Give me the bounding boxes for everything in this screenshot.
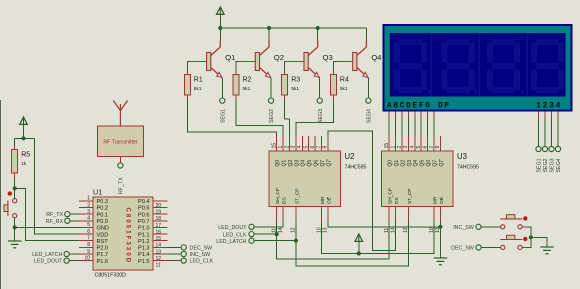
shift register U3 74HC595 body — [382, 151, 454, 207]
svg-text:P0.4: P0.4 — [138, 199, 150, 205]
pin U2.15 Q0 (top) — [276, 136, 278, 151]
junction OE net — [438, 225, 442, 229]
svg-text:ST_CP: ST_CP — [407, 189, 413, 204]
pin U3.5 Q5 (top) — [420, 136, 422, 151]
wire Q1 emitter down — [221, 78, 223, 98]
svg-text:9: 9 — [435, 146, 441, 149]
junction rail Q3 — [316, 26, 320, 30]
pin U1.13 P1.3 — [153, 246, 168, 248]
svg-text:P0.7: P0.7 — [138, 219, 150, 225]
pin display segment DP — [433, 112, 435, 119]
pin U1.9 P1.7 — [79, 253, 93, 255]
wire junction to switch top — [14, 190, 16, 198]
wire R4 to U2 input Q3 — [296, 101, 334, 137]
terminal LED_DOUT (to U2 DS) — [249, 224, 254, 229]
ground (reset switch) — [8, 241, 22, 248]
svg-text:D: D — [406, 101, 411, 110]
junction switch/GND — [13, 225, 17, 229]
wire power lead — [23, 124, 25, 138]
pin U1.15 P1.1 — [153, 233, 168, 235]
wire Q2 emitter down — [270, 78, 272, 98]
svg-text:SEG4: SEG4 — [556, 158, 562, 172]
wire display digit 2 down — [544, 118, 546, 147]
pin U1.14 P1.2 — [153, 240, 168, 242]
power symbol VCC (transistor rail) — [217, 7, 225, 14]
svg-text:P0.0: P0.0 — [97, 219, 109, 225]
pin R3.1 lead — [284, 70, 286, 75]
pin U3.4 Q4 (top) — [414, 136, 416, 151]
power symbol VCC (reset pullup) — [20, 117, 28, 124]
push button INC_SW — [500, 215, 527, 229]
wire to R5 top — [14, 138, 16, 144]
pin display digit 3 — [551, 112, 553, 119]
svg-text:D: D — [438, 101, 443, 110]
pin R1.2 lead — [186, 95, 188, 101]
wire U2 OE to U3 OE — [328, 221, 441, 227]
pin U3.12 ST_CP (bottom) — [407, 207, 409, 222]
svg-text:P1.1: P1.1 — [138, 232, 150, 238]
pin U1.17 P0.7 — [153, 220, 168, 222]
wire LED_LATCH to ST_CP net — [254, 240, 296, 242]
terminal DEC_SW (right of U1) — [181, 245, 186, 250]
resistor R3 5k1 — [282, 75, 301, 96]
svg-text:C8051F330D: C8051F330D — [125, 208, 131, 265]
pin display segment A — [388, 112, 390, 119]
svg-text:VDD: VDD — [97, 232, 109, 238]
pin U2.4 Q4 (top) — [301, 136, 303, 151]
transistor Q2 NPN — [239, 41, 271, 79]
svg-text:7: 7 — [429, 146, 435, 149]
resistor R2 5k1 — [233, 75, 252, 96]
svg-text:LED_DOUT: LED_DOUT — [218, 225, 247, 231]
pin U2.11 SH_CP (bottom) — [276, 207, 278, 222]
svg-text:R2: R2 — [243, 77, 252, 84]
svg-text:3: 3 — [549, 101, 554, 110]
svg-text:MR: MR — [432, 196, 438, 204]
svg-text:7: 7 — [316, 146, 322, 149]
pin R4.1 lead — [332, 70, 334, 75]
svg-text:Q1: Q1 — [394, 160, 400, 167]
pin U1.6 VDD — [79, 233, 93, 235]
svg-text:7: 7 — [87, 236, 90, 242]
wire RST net to U1 pin 7 — [15, 188, 79, 240]
svg-text:LED_DOUT: LED_DOUT — [34, 259, 63, 265]
pin U2.6 Q6 (top) — [314, 136, 316, 151]
pin U3.6 Q6 (top) — [427, 136, 429, 151]
svg-text:Q3: Q3 — [407, 160, 413, 167]
pin U1.3 P0.1 — [79, 213, 93, 215]
svg-text:E: E — [412, 101, 417, 110]
svg-text:P1.7: P1.7 — [97, 252, 109, 258]
svg-text:LED_LATCH: LED_LATCH — [32, 252, 62, 258]
svg-text:4: 4 — [87, 216, 90, 222]
svg-text:SEG2: SEG2 — [543, 158, 549, 172]
wire Q1 collector to rail — [219, 28, 221, 41]
pin U1.7 RST — [79, 240, 93, 242]
svg-text:Q2: Q2 — [288, 160, 294, 167]
pin U1.18 P0.6 — [153, 213, 168, 215]
svg-text:C8051F330D: C8051F330D — [95, 273, 127, 279]
wire R5 bottom — [14, 179, 16, 188]
wire display D to U3 — [407, 118, 409, 136]
wire switches to ground — [531, 237, 547, 247]
terminal SEG1 (emitter) — [220, 98, 225, 103]
svg-text:R4: R4 — [340, 77, 349, 84]
pin U2.7 Q7 (top) — [321, 136, 323, 151]
svg-text:2: 2 — [397, 146, 403, 149]
svg-text:1: 1 — [390, 146, 396, 149]
wire LED_CLK to SH_CP net — [254, 233, 277, 235]
wire Q4 emitter down — [367, 78, 369, 98]
svg-text:ST_CP: ST_CP — [294, 189, 300, 204]
svg-text:P1.2: P1.2 — [138, 239, 150, 245]
wire INC button to junction — [528, 227, 531, 238]
push button DEC_SW — [500, 235, 527, 249]
svg-text:RF Transmitter: RF Transmitter — [103, 140, 138, 146]
wire display DP to U3 — [433, 118, 435, 136]
pin U1.16 P1.0 — [153, 226, 168, 228]
terminal LED_DOUT — [64, 258, 69, 263]
pin display segment D — [407, 112, 409, 119]
svg-text:SH_CP: SH_CP — [388, 188, 394, 204]
svg-text:Q6: Q6 — [314, 160, 320, 167]
RF Transmitter module — [98, 126, 144, 157]
wire Q3 base to R3 — [285, 62, 288, 71]
terminal RF_TX — [65, 212, 70, 217]
svg-text:Q2: Q2 — [274, 53, 284, 62]
svg-text:SEG1: SEG1 — [221, 109, 227, 123]
svg-text:OE: OE — [439, 197, 445, 204]
pin U1.1 P0.3 — [79, 200, 93, 202]
wire display A to U3 — [388, 118, 390, 136]
wire power horizontal — [15, 137, 35, 139]
pin U3.15 Q0 (top) — [388, 136, 390, 151]
wire ST_CP bus U2 to U3 — [296, 221, 409, 266]
wire display F to U3 — [420, 118, 422, 136]
svg-text:RF_TX: RF_TX — [118, 177, 124, 194]
pin U3.3 Q3 (top) — [407, 136, 409, 151]
wire Q1 base to R1 — [187, 62, 190, 71]
wire power lead to rail — [219, 14, 221, 28]
wire R3 to U2 input Q2 — [285, 101, 290, 137]
svg-text:INC_SW: INC_SW — [453, 225, 474, 231]
svg-text:74HC595: 74HC595 — [345, 165, 367, 171]
svg-text:U1: U1 — [93, 188, 102, 197]
wire Q3 emitter down — [319, 78, 321, 98]
pin button DEC_SW right — [522, 246, 528, 248]
svg-text:6: 6 — [422, 146, 428, 149]
terminal RF_RX — [65, 218, 70, 223]
svg-text:Q4: Q4 — [413, 160, 419, 167]
svg-text:Q5: Q5 — [307, 160, 313, 167]
svg-text:Q6: Q6 — [426, 160, 432, 167]
svg-text:Q1: Q1 — [282, 160, 288, 167]
junction rail Q2 — [267, 26, 271, 30]
svg-text:P1.4: P1.4 — [138, 252, 150, 258]
wire Q2 collector to rail — [268, 28, 270, 41]
svg-text:4: 4 — [556, 101, 561, 110]
svg-text:Q7': Q7' — [439, 159, 445, 167]
svg-text:1: 1 — [87, 196, 90, 202]
svg-text:SH_CP: SH_CP — [275, 188, 281, 204]
junction LED_LATCH/ST_CP — [294, 239, 298, 243]
svg-text:1: 1 — [278, 146, 284, 149]
svg-text:5k1: 5k1 — [194, 86, 202, 92]
svg-text:P0.1: P0.1 — [97, 212, 109, 218]
pin U2.3 Q3 (top) — [295, 136, 297, 151]
svg-text:P0.2: P0.2 — [97, 206, 109, 212]
svg-text:Q3: Q3 — [323, 53, 333, 62]
7-segment 4-digit display module — [383, 24, 573, 112]
svg-text:2: 2 — [543, 101, 548, 110]
svg-text:Q4: Q4 — [301, 160, 307, 167]
wire display E to U3 — [414, 118, 416, 136]
terminal INC_SW (switch) — [476, 224, 481, 229]
transistor Q3 NPN — [288, 41, 320, 79]
wire power lead mid — [358, 241, 360, 254]
terminal SEG2 (emitter) — [268, 98, 273, 103]
svg-text:P0.5: P0.5 — [138, 206, 150, 212]
terminal SEG3 (display digit 3) — [549, 146, 554, 151]
svg-text:5: 5 — [304, 146, 310, 149]
wire display B to U3 — [395, 118, 397, 136]
wire SH_CP bus U2 to U3 — [277, 221, 390, 259]
svg-text:5: 5 — [416, 146, 422, 149]
svg-text:Q3: Q3 — [294, 160, 300, 167]
wire GND net to U1 pin 5 — [15, 226, 79, 228]
svg-text:SEG1: SEG1 — [537, 158, 543, 172]
wire display digit 1 down — [538, 118, 540, 147]
terminal LED_CLK (to clocks) — [249, 232, 254, 237]
pin display digit 2 — [544, 112, 546, 119]
svg-text:Q5: Q5 — [420, 160, 426, 167]
pin U1.12 P1.4 — [153, 253, 168, 255]
pin U1.10 P1.6 — [79, 260, 93, 262]
terminal INC_SW (right of U1) — [181, 251, 186, 256]
svg-text:LED_CLK: LED_CLK — [223, 232, 247, 238]
svg-text:SEG3: SEG3 — [318, 109, 324, 123]
push button reset switch — [4, 191, 17, 217]
svg-text:R1: R1 — [194, 77, 203, 84]
svg-text:DEC_SW: DEC_SW — [190, 245, 213, 251]
shift register U2 74HC595 body — [269, 151, 341, 207]
svg-text:Q1: Q1 — [225, 53, 235, 62]
svg-text:14: 14 — [278, 227, 284, 233]
pin U3.2 Q2 (top) — [401, 136, 403, 151]
wire VCC rail horizontal — [220, 27, 366, 29]
pin U1.5 GND — [79, 226, 93, 228]
junction VCC mid rail — [357, 251, 361, 255]
wire MR pins to VCC rail — [322, 221, 435, 254]
pin U2.5 Q5 (top) — [308, 136, 310, 151]
wire rail down to Q4 collector — [365, 28, 367, 41]
svg-text:DS: DS — [282, 197, 288, 204]
wire display C to U3 — [401, 118, 403, 136]
resistor R4 5k1 — [330, 75, 349, 96]
pin U1.8 P2.0 — [79, 246, 93, 248]
wire LED_DOUT to U1 — [69, 260, 79, 262]
svg-text:Q0: Q0 — [275, 160, 281, 167]
pin R3.2 lead — [284, 95, 286, 101]
svg-text:U2: U2 — [345, 152, 355, 161]
pin U3.10 MR (bottom) — [433, 207, 435, 222]
pin U1.2 P0.2 — [79, 207, 93, 209]
svg-text:A: A — [387, 101, 392, 110]
wire RF_TX to U1 — [70, 213, 79, 215]
wire display digit 3 down — [551, 118, 553, 147]
wire RF_RX to U1 — [70, 220, 79, 222]
svg-text:R3: R3 — [291, 77, 300, 84]
wire INC_SW terminal to button — [481, 226, 501, 228]
wire Q2 base to R2 — [236, 62, 239, 71]
pin U1.19 P0.5 — [153, 207, 168, 209]
svg-text:3: 3 — [291, 146, 297, 149]
pin U3.11 SH_CP (bottom) — [388, 207, 390, 222]
svg-text:Q0: Q0 — [388, 160, 394, 167]
svg-text:P0.3: P0.3 — [97, 199, 109, 205]
svg-text:RF_RX: RF_RX — [46, 219, 64, 225]
pin display segment E — [414, 112, 416, 119]
svg-text:SEG2: SEG2 — [269, 109, 275, 123]
svg-text:5: 5 — [87, 222, 90, 228]
wire DEC_SW from U1 — [168, 246, 182, 248]
svg-text:2: 2 — [87, 202, 90, 208]
pin U2.9 Q7' (top) — [327, 136, 329, 151]
terminal LED_LATCH — [64, 251, 69, 256]
pin U3.1 Q1 (top) — [395, 136, 397, 151]
pin R4.2 lead — [332, 95, 334, 101]
wire U2 Q7' to U3 DS cascade — [328, 131, 396, 250]
svg-text:G: G — [425, 101, 430, 110]
svg-text:1: 1 — [536, 101, 541, 110]
wire INC_SW from U1 — [168, 253, 182, 255]
pin U1.11 P1.5 — [153, 260, 168, 262]
pin U3.9 Q7' (top) — [439, 136, 441, 151]
svg-text:LED_CLK: LED_CLK — [190, 259, 214, 265]
svg-text:11: 11 — [156, 263, 161, 269]
svg-text:MR: MR — [320, 196, 326, 204]
svg-text:13: 13 — [323, 227, 329, 233]
wire DEC_SW terminal to button — [481, 246, 501, 248]
svg-text:15: 15 — [272, 143, 278, 149]
terminal LED_CLK (right of U1) — [181, 258, 186, 263]
svg-text:3: 3 — [403, 146, 409, 149]
svg-text:P1.5: P1.5 — [138, 259, 150, 265]
pin U2.1 Q1 (top) — [282, 136, 284, 151]
pin U2.13 OE (bottom) — [327, 207, 329, 222]
svg-text:Q7: Q7 — [320, 160, 326, 167]
pin R5.2 lead — [14, 173, 16, 179]
svg-text:OE: OE — [326, 197, 332, 204]
svg-text:4: 4 — [410, 146, 416, 149]
terminal SEG3 (emitter) — [317, 98, 322, 103]
svg-text:P: P — [444, 101, 449, 110]
pin display segment B — [395, 112, 397, 119]
terminal SEG4 (display digit 4) — [555, 146, 560, 151]
ground (OE net) — [434, 258, 448, 265]
svg-text:Q2: Q2 — [400, 160, 406, 167]
wire Q3 collector to rail — [317, 28, 319, 41]
transistor Q4 NPN — [336, 41, 368, 79]
label 1234 on display — [536, 101, 561, 110]
pin display digit 1 — [538, 112, 540, 119]
terminal SEG2 (display digit 2) — [542, 146, 547, 151]
pin U3.13 OE (bottom) — [439, 207, 441, 222]
sheet border edge — [0, 100, 2, 289]
svg-text:2: 2 — [284, 146, 290, 149]
svg-text:Q7': Q7' — [326, 159, 332, 167]
wire LED_DOUT to U2 DS — [254, 221, 283, 227]
svg-text:RF_TX: RF_TX — [46, 212, 63, 218]
resistor R1 5k1 — [184, 75, 203, 96]
svg-text:F: F — [419, 101, 424, 110]
svg-text:RST: RST — [97, 239, 109, 245]
svg-text:6: 6 — [310, 146, 316, 149]
svg-text:INC_SW: INC_SW — [190, 252, 211, 258]
svg-text:LED_LATCH: LED_LATCH — [216, 239, 246, 245]
pin R2.2 lead — [235, 95, 237, 101]
svg-text:1k: 1k — [21, 161, 27, 167]
pin display segment F — [420, 112, 422, 119]
resistor R5 1k — [12, 150, 31, 174]
pin U2.14 DS (bottom) — [282, 207, 284, 222]
microcontroller U1 C8051F330D body — [93, 197, 153, 270]
pin display digit 4 — [557, 112, 559, 119]
svg-text:8: 8 — [87, 242, 90, 248]
pin display segment G — [427, 112, 429, 119]
ground (switches) — [540, 247, 554, 254]
wire switch bottom — [14, 218, 16, 228]
svg-text:SEG4: SEG4 — [367, 109, 373, 123]
svg-text:15: 15 — [384, 143, 390, 149]
svg-text:Q7: Q7 — [432, 160, 438, 167]
svg-text:Q4: Q4 — [371, 53, 382, 62]
wire VDD net to U1 pin 6 — [35, 138, 80, 234]
wire DEC button to junction — [528, 237, 531, 247]
terminal LED_LATCH (to latches) — [249, 238, 254, 243]
terminal SEG4 (emitter) — [366, 98, 371, 103]
svg-text:74HC595: 74HC595 — [457, 165, 479, 171]
pin U3.14 DS (bottom) — [395, 207, 397, 222]
svg-text:DS: DS — [394, 197, 400, 204]
wire R1 to U2 input Q0 — [187, 101, 276, 137]
wire R2 to U2 input Q1 — [236, 101, 283, 137]
svg-text:SEG3: SEG3 — [550, 158, 556, 172]
junction LED_CLK/SH_CP — [275, 232, 279, 236]
wire Q4 base to R4 — [333, 62, 336, 71]
power symbol VCC (between U2 U3) — [355, 234, 363, 241]
pin button INC_SW right — [522, 226, 528, 228]
pin R1.1 lead — [186, 70, 188, 75]
svg-text:10: 10 — [84, 255, 90, 261]
junction R5/switch/RST — [13, 186, 17, 190]
svg-text:9: 9 — [323, 146, 329, 149]
terminal RF_TX (transmitter) — [118, 163, 123, 168]
svg-text:R5: R5 — [21, 152, 30, 159]
wire display G to U3 — [427, 118, 429, 136]
pin U2.2 Q2 (top) — [289, 136, 291, 151]
svg-text:3: 3 — [87, 209, 90, 215]
junction power/R5/VDD — [21, 136, 25, 140]
wire LED_CLK from U1 — [168, 260, 182, 262]
svg-text:U3: U3 — [457, 152, 467, 161]
pin U1.4 P0.0 — [79, 220, 93, 222]
svg-text:C: C — [400, 101, 405, 110]
transistor Q1 NPN — [190, 41, 222, 79]
wire LED_LATCH to U1 — [69, 253, 79, 255]
svg-text:DEC_SW: DEC_SW — [451, 246, 474, 252]
pin display segment C — [401, 112, 403, 119]
